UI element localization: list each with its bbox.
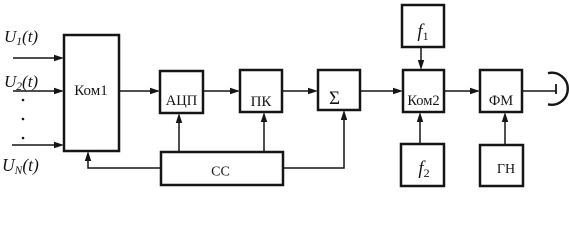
svg-text:f2: f2 <box>418 159 429 180</box>
block Kom1 <box>64 35 119 151</box>
svg-text:f1: f1 <box>417 22 428 43</box>
block Kom2 <box>403 70 444 112</box>
output tick <box>555 84 557 94</box>
block FM <box>480 70 522 112</box>
wire f1 to Kom2 <box>420 47 422 61</box>
wire CC to Kom1 <box>88 160 161 168</box>
output antenna arc <box>548 73 568 105</box>
svg-text:UN(t): UN(t) <box>2 155 39 177</box>
svg-text:U2(t): U2(t) <box>4 72 38 93</box>
wire CC to PK <box>263 121 265 152</box>
block CC <box>161 152 283 185</box>
svg-text:СС: СС <box>211 165 230 180</box>
wire f2 to Kom2 <box>419 121 421 144</box>
wire Sigma to Kom2 <box>360 90 394 92</box>
block f1 <box>402 5 444 47</box>
wire input 1 <box>13 57 55 59</box>
wire FM to output <box>522 90 556 92</box>
block Sigma <box>318 70 360 110</box>
wire input 2 <box>13 90 55 92</box>
block f2 <box>401 144 444 186</box>
wire Kom1 to ACP <box>119 90 151 92</box>
svg-text:Σ: Σ <box>329 88 340 109</box>
svg-text:ФМ: ФМ <box>489 93 513 109</box>
svg-text:U1(t): U1(t) <box>4 27 38 48</box>
svg-text:ГН: ГН <box>497 162 515 177</box>
wire CC to Sigma <box>283 119 344 168</box>
wire ACP to PK <box>203 90 231 92</box>
svg-text:Ком1: Ком1 <box>74 83 107 99</box>
dots ellipsis <box>22 99 25 140</box>
wire input N <box>12 144 55 146</box>
svg-text:АЦП: АЦП <box>166 93 198 109</box>
wire CC to ACP <box>178 122 180 152</box>
svg-text:Ком2: Ком2 <box>407 93 439 109</box>
block PK <box>240 70 282 112</box>
block ACP (ADC) <box>160 71 203 113</box>
block GN <box>480 145 523 186</box>
wire Kom2 to FM <box>444 90 471 92</box>
wire PK to Sigma <box>282 90 309 92</box>
svg-text:ПК: ПК <box>251 94 273 110</box>
wire GN to FM <box>504 121 506 145</box>
